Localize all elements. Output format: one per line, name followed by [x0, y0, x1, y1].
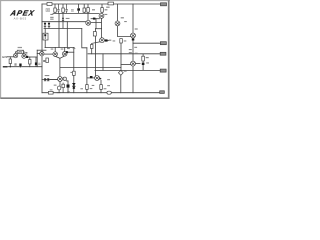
- wire node row upper: [37, 49, 46, 51]
- wire Q3 base stub: [37, 53, 40, 55]
- junction cap blob: [26, 56, 28, 58]
- terminal -V: [160, 91, 165, 94]
- wire col x59: [58, 13, 60, 47]
- terminal B: [160, 42, 166, 45]
- terminal C: [160, 52, 166, 55]
- resistor R18 (x95 column): [93, 32, 96, 36]
- wire R7 stub: [101, 4, 103, 14]
- wire ground return: [8, 66, 42, 68]
- wire mirror row: [44, 28, 82, 30]
- junction dot C9: [20, 66, 21, 67]
- capacitor C6 black (x143): [142, 63, 145, 65]
- resistor R2 (series V+ right): [108, 2, 114, 5]
- junction dot: [66, 51, 68, 53]
- wire Q14 emitter link: [92, 42, 100, 45]
- transistor Q11: [63, 77, 66, 80]
- capacitor C8 plates: [14, 64, 16, 65]
- diode D3 on x63: [62, 13, 64, 28]
- wire TB junction: [66, 51, 74, 53]
- wire T4 collector: [87, 13, 89, 20]
- text GND: [3, 66, 8, 68]
- wire col x87 upper: [86, 48, 88, 68]
- resistor R7: [101, 8, 104, 13]
- svg-text:AX-B05: AX-B05: [14, 16, 27, 20]
- wire pot right leg: [23, 52, 26, 54]
- diode D8 stack: [73, 87, 76, 89]
- wire diode row link: [46, 79, 58, 81]
- capacitor C10 blob: [35, 57, 37, 67]
- transistor Q5: [99, 13, 104, 18]
- wire col x37: [36, 50, 38, 66]
- logo APEX: [9, 8, 36, 17]
- resistor R5: [83, 8, 86, 12]
- resistor R11 feedback: [29, 60, 31, 65]
- label P1: [18, 47, 22, 48]
- wire rail2: [53, 12, 99, 14]
- terminal D: [160, 69, 166, 72]
- capacitor C14 black (Q14 base): [105, 39, 108, 41]
- resistor R10 input shunt: [9, 59, 11, 64]
- resistor R12: [46, 58, 49, 63]
- label Q14: [109, 40, 112, 41]
- capacitor C1: [57, 4, 59, 13]
- wire T12 out: [66, 80, 68, 82]
- wire TA base: [42, 53, 53, 55]
- wire VAS node: [45, 47, 74, 49]
- capacitor C7: [25, 53, 27, 54]
- resistor R1 (series V+ left): [47, 3, 52, 6]
- resistor R8 (x121): [120, 39, 123, 43]
- resistor R13 (x74 column): [73, 71, 76, 75]
- transistor Q6: [115, 4, 120, 26]
- wire pre-driver row: [87, 77, 95, 79]
- wire T9 emitter: [100, 80, 102, 92]
- resistor R14: [86, 85, 89, 90]
- svg-text:EIN: EIN: [2, 55, 7, 59]
- wire diode bias chain: [44, 29, 46, 48]
- border frame bottom: [0, 97, 169, 99]
- capacitor C9 electrolytic blob: [19, 64, 21, 67]
- wire right column: [132, 4, 134, 93]
- wire R4 stubs: [62, 4, 64, 13]
- wire Q12 stub: [58, 90, 60, 93]
- wire col x82 elbow: [82, 29, 87, 48]
- capacitor C5 black on base wire: [93, 18, 96, 20]
- transistor QA: [53, 52, 58, 57]
- wire left bus: [41, 4, 43, 93]
- wire diff out: [28, 56, 38, 58]
- transistor Q13: [95, 76, 102, 81]
- wire Q8 collector out: [135, 63, 140, 65]
- wire Q14 base out: [104, 40, 109, 42]
- wire col x103: [102, 54, 104, 71]
- transistor Q10: [58, 77, 63, 82]
- wire TA collector stub: [54, 48, 56, 52]
- terminal +V: [161, 3, 167, 6]
- wire TB collector stub: [64, 48, 66, 52]
- wire driver left row: [42, 79, 58, 81]
- capacitor C4 electrolytic: [77, 4, 80, 13]
- wire T5b base: [91, 18, 100, 20]
- border frame right: [168, 0, 170, 99]
- wire T5 emitter path: [118, 26, 131, 37]
- capacitor C10 ticks: [38, 63, 40, 64]
- transistor Q3: [40, 52, 44, 56]
- wire col x74: [73, 48, 75, 93]
- transistor Q2: [22, 54, 26, 58]
- wire mid horizontal: [88, 53, 160, 55]
- wire base row: [42, 21, 86, 23]
- wire driver column: [120, 43, 122, 93]
- diode D2: [48, 22, 50, 29]
- wire output rail: [95, 69, 160, 71]
- transistor Q7: [131, 33, 136, 38]
- resistor R3: [54, 8, 57, 12]
- wire col x101 lower: [101, 29, 103, 39]
- wire fb resistor stubs: [29, 57, 31, 67]
- wire V+ rail: [42, 3, 161, 5]
- wire to terminal B: [133, 42, 160, 44]
- transistor Q4: [86, 20, 91, 25]
- wire col x95: [95, 29, 97, 78]
- wire input shunt: [9, 57, 11, 67]
- transistor QB: [62, 52, 67, 57]
- wire V- rail: [42, 92, 160, 94]
- diode D1: [44, 22, 46, 29]
- wire R9 stubs: [142, 54, 144, 71]
- resistor R6: [87, 8, 90, 13]
- capacitor C11 plates: [43, 60, 45, 61]
- label R13: [70, 72, 72, 73]
- LED bias box: [43, 33, 48, 40]
- wire R6 stub: [87, 4, 89, 13]
- wire bottom corner detail: [57, 92, 60, 94]
- wire input node: [7, 56, 14, 58]
- wire T10 emitter: [59, 81, 61, 86]
- capacitor C3 label marks: [71, 10, 74, 11]
- wire col x87: [86, 68, 88, 93]
- border frame left: [0, 0, 2, 99]
- resistor R4: [62, 8, 65, 12]
- wire col x91 stub: [91, 49, 93, 54]
- transistor Q1: [13, 53, 17, 57]
- resistor R16 on V- rail: [48, 91, 53, 94]
- wire tail join: [55, 56, 64, 77]
- wire col x68 cap stem: [67, 81, 69, 93]
- diode D5: [44, 78, 46, 80]
- wire pot left leg: [16, 52, 18, 54]
- wire R5 stubs: [83, 4, 85, 13]
- potentiometer P1: [17, 50, 23, 53]
- transistor Q8: [131, 61, 136, 66]
- junction dot input R: [10, 66, 11, 67]
- wire bias row: [60, 67, 121, 69]
- transistor Q12 lower circle: [57, 86, 61, 90]
- capacitor C2: [65, 4, 67, 13]
- resistor R19 (x91 column): [91, 45, 94, 49]
- resistor R20 (beside C12): [62, 83, 65, 93]
- wire col x67: [66, 22, 68, 48]
- border frame top: [0, 0, 170, 2]
- capacitor C12 electrolytic: [67, 85, 70, 88]
- transistor Q14: [100, 38, 105, 43]
- wire T7 base: [121, 63, 131, 65]
- resistor R9 (x143): [142, 56, 145, 61]
- wire T4 out: [91, 18, 102, 28]
- labels small grey marks: [45, 7, 149, 92]
- diode D6: [47, 78, 49, 80]
- diode D4 black on x133: [132, 38, 135, 40]
- diode D7 stack: [73, 83, 76, 85]
- capacitor C13 blob on predriver wire: [90, 76, 93, 78]
- wire col x96: [95, 19, 97, 29]
- wire mirror link right: [96, 28, 102, 30]
- emitter diamond: [118, 70, 123, 75]
- resistor R15: [100, 85, 103, 90]
- resistor R17 on V- rail: [107, 91, 111, 94]
- wire R3 stubs: [54, 4, 56, 13]
